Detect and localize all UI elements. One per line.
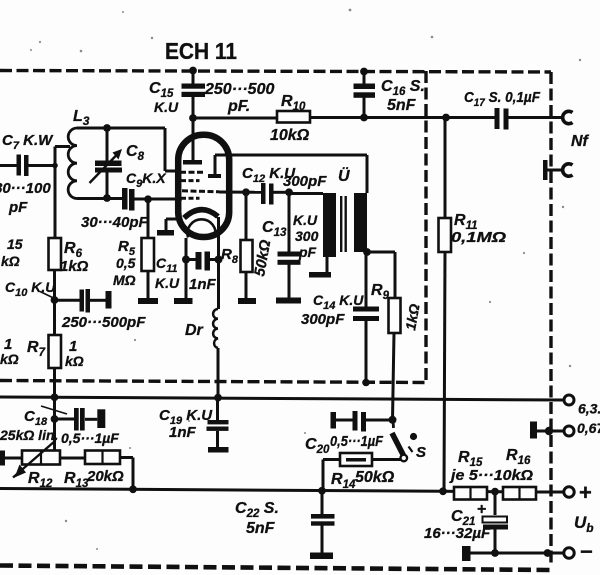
svg-text:0,5···1µF: 0,5···1µF xyxy=(61,430,119,446)
svg-text:30···40pF: 30···40pF xyxy=(81,214,149,231)
svg-text:C20: C20 xyxy=(305,436,330,456)
svg-text:1kΩ: 1kΩ xyxy=(402,303,422,332)
svg-text:R12: R12 xyxy=(28,470,53,490)
svg-text:1nF: 1nF xyxy=(189,276,217,293)
svg-text:+: + xyxy=(477,501,486,518)
svg-text:je 5···10kΩ: je 5···10kΩ xyxy=(449,467,533,484)
svg-text:pF: pF xyxy=(298,244,317,260)
svg-text:0,67: 0,67 xyxy=(577,420,600,436)
svg-text:kΩ: kΩ xyxy=(1,253,20,269)
svg-text:5nF: 5nF xyxy=(387,97,417,114)
svg-text:R7: R7 xyxy=(27,339,46,359)
svg-text:R13: R13 xyxy=(64,470,89,490)
svg-text:250···500: 250···500 xyxy=(204,81,274,98)
svg-text:K.U: K.U xyxy=(154,99,179,115)
svg-text:0,5···1µF: 0,5···1µF xyxy=(330,433,384,450)
svg-text:C16 S.: C16 S. xyxy=(381,78,425,98)
svg-text:ECH 11: ECH 11 xyxy=(165,38,237,64)
svg-text:L3: L3 xyxy=(73,108,90,128)
svg-text:R6: R6 xyxy=(64,240,83,260)
svg-text:5nF: 5nF xyxy=(246,520,276,537)
svg-text:R9: R9 xyxy=(371,282,390,302)
svg-text:6,3.: 6,3. xyxy=(578,401,600,417)
svg-text:C18: C18 xyxy=(24,408,48,428)
svg-text:K.U: K.U xyxy=(155,275,180,291)
svg-text:50kΩ: 50kΩ xyxy=(355,469,395,486)
svg-text:20kΩ: 20kΩ xyxy=(86,468,124,485)
svg-text:300pF: 300pF xyxy=(283,173,327,190)
svg-text:K.U: K.U xyxy=(293,212,318,228)
svg-text:25kΩ lin.: 25kΩ lin. xyxy=(0,427,58,443)
svg-text:Ub: Ub xyxy=(574,513,594,535)
svg-text:15: 15 xyxy=(7,236,23,252)
svg-text:80···100: 80···100 xyxy=(0,180,51,197)
svg-text:kΩ: kΩ xyxy=(65,353,84,369)
svg-text:16···32µF: 16···32µF xyxy=(424,525,491,542)
svg-text:300pF: 300pF xyxy=(301,311,345,328)
svg-text:10kΩ: 10kΩ xyxy=(270,127,310,144)
svg-text:C8: C8 xyxy=(126,143,145,163)
svg-text:R14: R14 xyxy=(331,471,356,491)
svg-text:50kΩ: 50kΩ xyxy=(251,238,274,277)
svg-text:250···500pF: 250···500pF xyxy=(61,314,146,331)
svg-text:S: S xyxy=(416,444,426,461)
svg-text:pF: pF xyxy=(8,199,28,216)
svg-text:R15: R15 xyxy=(458,449,483,469)
svg-text:−: − xyxy=(580,539,593,564)
svg-text:C22 S.: C22 S. xyxy=(235,500,279,520)
svg-text:MΩ: MΩ xyxy=(113,272,136,288)
svg-text:300: 300 xyxy=(295,228,319,244)
svg-text:R16: R16 xyxy=(506,447,531,467)
svg-text:C7 K.W: C7 K.W xyxy=(2,132,54,152)
svg-text:Nf: Nf xyxy=(571,133,590,150)
svg-text:Ü: Ü xyxy=(338,166,350,185)
svg-text:C9K.X: C9K.X xyxy=(126,170,167,190)
svg-text:pF.: pF. xyxy=(227,98,250,115)
svg-text:C15: C15 xyxy=(149,80,174,100)
svg-text:0,1MΩ: 0,1MΩ xyxy=(451,229,506,246)
svg-text:C11: C11 xyxy=(156,255,178,275)
svg-text:R8: R8 xyxy=(221,246,239,266)
svg-text:C17 S. 0,1µF: C17 S. 0,1µF xyxy=(464,89,541,109)
svg-text:Dr: Dr xyxy=(185,322,204,339)
svg-text:+: + xyxy=(579,480,592,505)
svg-text:kΩ: kΩ xyxy=(0,351,19,367)
svg-text:1nF: 1nF xyxy=(169,424,197,441)
svg-text:C13: C13 xyxy=(262,219,287,239)
svg-text:0,5: 0,5 xyxy=(116,255,136,271)
svg-text:1kΩ: 1kΩ xyxy=(60,258,89,275)
